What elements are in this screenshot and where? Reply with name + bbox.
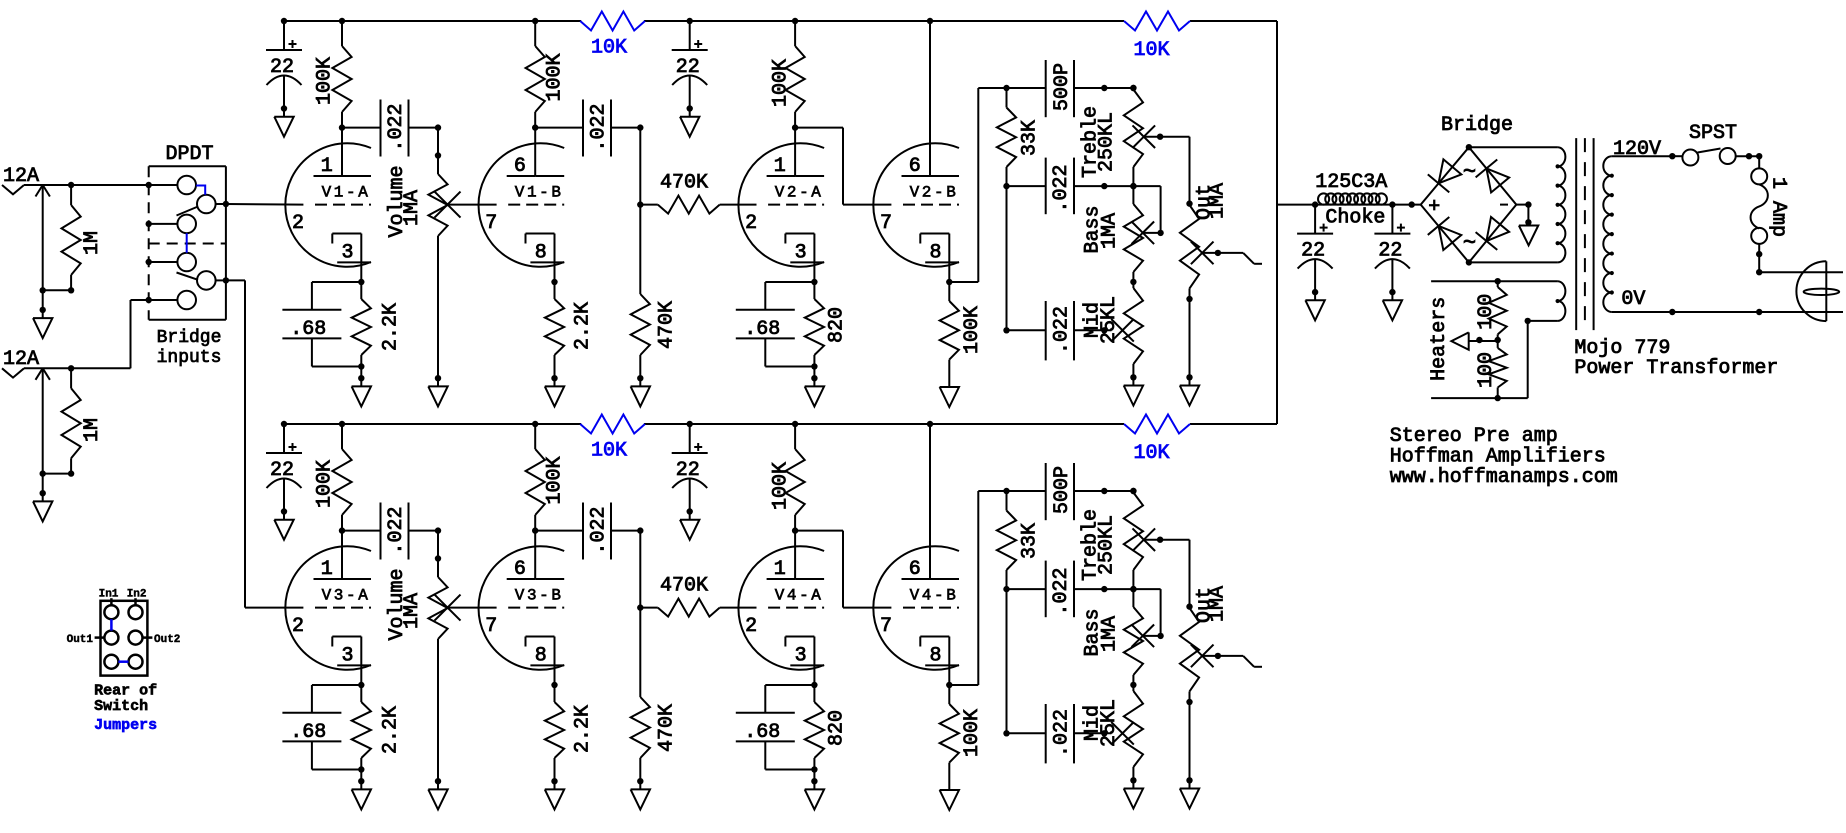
svg-text:8: 8 [535,645,547,668]
svg-text:1: 1 [321,558,333,581]
resistor 100K (V3-B plate) [526,424,567,534]
svg-text:6: 6 [909,155,921,178]
rear-of-switch jumper diagram [67,589,181,676]
capacitor 22uF ps1 [1297,205,1333,321]
svg-text:1MA: 1MA [1207,586,1230,622]
resistor 820 (V2-A cathode) [805,279,849,378]
svg-text:470K: 470K [655,301,678,349]
svg-text:0V: 0V [1621,288,1645,311]
ground [545,778,564,809]
ground (heater center tap) [1451,332,1468,349]
svg-text:33K: 33K [1019,523,1042,559]
triode V2-B [873,21,959,282]
switch DPDT [146,143,230,320]
capacitor 22uF ch11 [266,21,302,137]
wire [1469,337,1501,343]
capacitor 500P ch2 [1046,463,1074,520]
svg-text:1M: 1M [81,418,104,442]
svg-text:8: 8 [929,645,941,668]
svg-text:In2: In2 [127,589,147,601]
resistor 2.2K (V3-A cathode) [352,682,403,781]
svg-text:6: 6 [514,558,526,581]
output break symbol ch2 [1202,653,1262,667]
wire [409,527,442,533]
wire [1074,183,1164,236]
capacitor .022 (mid) ch1 [1007,301,1075,360]
svg-text:1MA: 1MA [1098,616,1121,652]
choke 125C3A [1315,171,1387,229]
wire [1144,134,1193,207]
svg-text:V3-A: V3-A [322,587,371,605]
capacitor 22uF ch12 [672,21,708,137]
capacitor 500P ch1 [1046,60,1074,117]
fuse 1 Amp [1751,168,1790,244]
svg-text:25KL: 25KL [1098,296,1121,344]
jumper (blue) [118,660,128,663]
ground [1180,374,1199,405]
label 0V [1621,288,1645,311]
svg-text:100K: 100K [769,59,792,107]
resistor 10K (blue) ch2b [1124,415,1190,466]
svg-text:1MA: 1MA [1098,213,1121,249]
svg-text:500P: 500P [1051,63,1074,111]
ground [1124,777,1143,808]
jumper (blue) [196,186,205,195]
svg-text:.022: .022 [587,506,610,554]
capacitor .022 (bass) ch2 [1007,561,1075,618]
bridge rectifier [1421,114,1517,266]
svg-text:Heaters: Heaters [1428,297,1451,381]
resistor 10K (blue) ch1a [580,12,645,60]
resistor 100K (V1-A plate) [314,21,352,131]
wire [795,531,891,608]
svg-text:6: 6 [909,558,921,581]
svg-text:7: 7 [880,615,892,638]
svg-text:7: 7 [485,212,497,235]
capacitor .022 (V3-B coupling) [583,503,611,560]
resistor 33K ch1 [997,88,1042,189]
resistor 10K (blue) ch2a [580,415,645,463]
svg-text:V4-B: V4-B [910,587,959,605]
wire [946,488,1046,688]
resistor 2.2K (V1-B cathode) [545,279,595,378]
triode V4-A [738,531,824,685]
svg-text:1: 1 [774,558,786,581]
transformer heater secondary [1431,278,1565,321]
svg-text:.022: .022 [385,506,408,554]
wire [795,128,891,205]
svg-text:2.2K: 2.2K [572,705,595,753]
svg-text:.68: .68 [744,318,780,341]
resistor 820 (V4-A cathode) [805,682,849,781]
triode V4-B [873,424,959,685]
resistor R1 1M [40,185,104,293]
svg-text:1: 1 [774,155,786,178]
wire [409,124,442,130]
svg-text:Bridge: Bridge [157,328,222,348]
svg-text:V1-B: V1-B [515,184,564,202]
transformer primary [1603,153,1843,315]
svg-text:100: 100 [1475,294,1498,330]
wire [1431,318,1531,402]
svg-text:.022: .022 [1050,164,1073,212]
potentiometer Mid 25KL ch2 [1082,691,1143,780]
svg-text:100K: 100K [961,306,984,354]
label Heaters [1428,297,1451,381]
svg-text:10K: 10K [1133,39,1169,62]
potentiometer Out 1MA ch1 [1180,183,1230,377]
transformer core [1576,138,1593,330]
svg-text:10K: 10K [591,37,627,60]
wire B+ rail ch2 [281,421,1277,427]
resistor 470K (grid shunt) ch1 [631,205,679,379]
wire [1074,327,1112,333]
svg-text:.68: .68 [744,721,780,744]
potentiometer Treble 250KL ch1 [1079,85,1155,190]
switch SPST [1672,122,1737,166]
svg-text:470K: 470K [655,704,678,752]
ground [1124,374,1143,405]
label title [1390,425,1618,489]
svg-text:8: 8 [535,242,547,265]
triode V2-A [738,128,824,282]
svg-text:10K: 10K [1133,442,1169,465]
potentiometer Mid 25KL ch1 [1082,288,1143,377]
svg-text:125C3A: 125C3A [1315,171,1387,194]
ground [428,778,447,809]
ground [428,375,447,406]
resistor 100K (V1-B plate) [526,21,567,131]
input jack J2 (12A) [2,348,50,474]
wire [1756,244,1843,276]
wire [1144,537,1193,610]
svg-text:.022: .022 [1050,709,1073,757]
potentiometer Volume 1MA ch2 [386,531,461,782]
svg-text:.68: .68 [290,318,326,341]
wire [1736,153,1763,168]
svg-text:.022: .022 [1050,567,1073,615]
wire [1074,586,1164,639]
triode V1-B [479,128,565,282]
resistor 2.2K (V3-B cathode) [545,682,595,781]
resistor 2.2K (V1-A cathode) [352,279,403,378]
capacitor .022 (bass) ch1 [1007,158,1075,215]
capacitor .68 (V1-A cathode) [282,282,361,367]
resistor 470K (coupling) ch1 [640,172,756,214]
wire [447,607,497,609]
wire [1074,730,1112,736]
label Mojo 779 Power Transformer [1574,337,1778,380]
svg-text:100K: 100K [314,57,337,105]
svg-text:100K: 100K [961,709,984,757]
svg-text:V4-A: V4-A [775,587,824,605]
label Bridge inputs [157,328,222,368]
svg-text:500P: 500P [1051,466,1074,514]
svg-text:7: 7 [485,615,497,638]
svg-text:100K: 100K [769,462,792,510]
svg-text:1MA: 1MA [401,190,424,226]
capacitor .022 (V3-A-Volume) [381,503,409,560]
potentiometer Volume 1MA ch1 [386,128,461,379]
svg-text:7: 7 [880,212,892,235]
ground [631,375,650,406]
resistor 100K (V4-A plate) [769,424,804,534]
svg-text:3: 3 [795,242,807,265]
svg-text:V2-B: V2-B [910,184,959,202]
svg-text:470K: 470K [660,172,708,195]
capacitor 22uF ch22 [672,424,708,540]
svg-text:2.2K: 2.2K [380,303,403,351]
wire B+ rail ch1 [281,18,1277,24]
svg-text:250KL: 250KL [1095,112,1118,172]
label 120V [1613,138,1661,161]
AC plug [1796,261,1839,321]
svg-text:100K: 100K [314,460,337,508]
ground [33,474,52,522]
resistor 10K (blue) ch1b [1124,12,1190,63]
ground [545,375,564,406]
svg-text:1M: 1M [81,231,104,255]
svg-text:120V: 120V [1613,138,1661,161]
svg-text:2.2K: 2.2K [572,302,595,350]
ground [352,375,371,406]
wire [1074,85,1137,91]
svg-text:~: ~ [1463,231,1476,256]
resistor 100 (heater bal 1) [1475,281,1507,339]
capacitor .022 (mid) ch2 [1007,704,1075,763]
label Rear of Switch [94,683,157,715]
ground [352,778,371,809]
svg-text:DPDT: DPDT [165,143,213,166]
svg-text:2.2K: 2.2K [380,706,403,754]
resistor R2 1M [40,368,104,477]
ground [1516,201,1538,245]
svg-text:6: 6 [514,155,526,178]
svg-text:.022: .022 [1050,306,1073,354]
resistor 100K (V2-A plate) [769,21,804,131]
capacitor .68 (V2-A cathode) [736,282,815,367]
wire [611,527,644,610]
svg-text:V2-A: V2-A [775,184,824,202]
svg-text:3: 3 [341,242,353,265]
svg-text:8: 8 [929,242,941,265]
svg-text:Jumpers: Jumpers [94,717,157,734]
svg-text:2: 2 [292,212,304,235]
ground [940,387,959,407]
capacitor 22uF ps2 [1374,205,1410,321]
svg-text:.022: .022 [587,103,610,151]
svg-text:Out1: Out1 [67,634,94,646]
wire [24,182,178,188]
wire [1003,186,1009,333]
wire [342,127,380,129]
resistor 100K (V3-A plate) [314,424,352,534]
svg-text:33K: 33K [1019,120,1042,156]
triode V3-A [285,531,371,685]
output break symbol ch1 [1202,250,1262,264]
wire [611,124,644,207]
svg-text:Power Transformer: Power Transformer [1574,357,1778,380]
svg-text:250KL: 250KL [1095,515,1118,575]
wire [226,280,304,607]
svg-text:2: 2 [745,212,757,235]
resistor 100K (V2-B cathode) [940,282,984,387]
svg-text:100K: 100K [544,456,567,504]
svg-text:2: 2 [745,615,757,638]
triode V1-A [285,128,371,282]
svg-text:Bridge: Bridge [1441,114,1513,137]
jumper (blue) [186,233,188,253]
svg-text:100: 100 [1475,352,1498,388]
svg-text:1MA: 1MA [1207,183,1230,219]
resistor 470K (coupling) ch2 [640,575,756,617]
svg-text:www.hoffmanamps.com: www.hoffmanamps.com [1390,466,1618,489]
svg-text:820: 820 [825,307,848,343]
svg-text:10K: 10K [591,440,627,463]
svg-text:.022: .022 [385,103,408,151]
ground [940,790,959,810]
svg-text:V1-A: V1-A [322,184,371,202]
svg-text:V3-B: V3-B [515,587,564,605]
wire B+ vertical [1276,21,1278,424]
wire [535,127,582,129]
wire [342,530,380,532]
svg-text:.68: .68 [290,721,326,744]
svg-text:+: + [1428,196,1440,219]
svg-text:Out2: Out2 [154,634,180,646]
svg-text:2: 2 [292,615,304,638]
label Jumpers (blue) [94,717,157,734]
svg-text:3: 3 [341,645,353,668]
wire [1074,488,1137,494]
ground [1180,777,1199,808]
triode V3-B [479,531,565,685]
capacitor .68 (V3-A cathode) [282,685,361,770]
svg-text:1: 1 [321,155,333,178]
potentiometer Treble 250KL ch2 [1079,488,1155,593]
svg-text:~: ~ [1463,160,1476,185]
svg-text:In1: In1 [99,589,119,601]
transformer HV secondary [1469,147,1565,262]
capacitor .022 (V1-B coupling) [583,100,611,157]
capacitor .022 (V1-A-Volume) [381,100,409,157]
svg-text:Switch: Switch [94,698,148,715]
resistor 470K (grid shunt) ch2 [631,608,679,782]
potentiometer Bass 1MA ch2 [1082,589,1155,691]
capacitor .68 (V4-A cathode) [736,685,815,770]
jumper (blue) [110,619,113,630]
svg-text:100K: 100K [544,53,567,101]
ground [805,375,824,406]
svg-text:3: 3 [795,645,807,668]
resistor 33K ch2 [997,491,1042,592]
wire [1003,589,1009,736]
potentiometer Bass 1MA ch1 [1082,186,1155,288]
svg-text:25KL: 25KL [1098,699,1121,747]
ground [33,290,52,338]
svg-text:SPST: SPST [1689,122,1737,145]
svg-text:Choke: Choke [1325,206,1385,229]
wire [946,85,1046,285]
potentiometer Out 1MA ch2 [1180,586,1230,780]
wire [1277,201,1421,207]
wire [24,297,178,372]
svg-text:1MA: 1MA [401,593,424,629]
ground [631,778,650,809]
ground [805,778,824,809]
capacitor 22uF ch21 [266,424,302,540]
svg-text:470K: 470K [660,575,708,598]
svg-text:inputs: inputs [157,348,222,368]
resistor 100 (heater bal 2) [1475,339,1507,398]
wire [226,203,304,206]
resistor 100K (V4-B cathode) [940,685,984,790]
svg-text:1 Amp: 1 Amp [1767,177,1790,237]
svg-text:820: 820 [825,710,848,746]
wire [535,530,582,532]
input jack J1 (12A) [2,165,50,290]
wire [447,204,497,206]
